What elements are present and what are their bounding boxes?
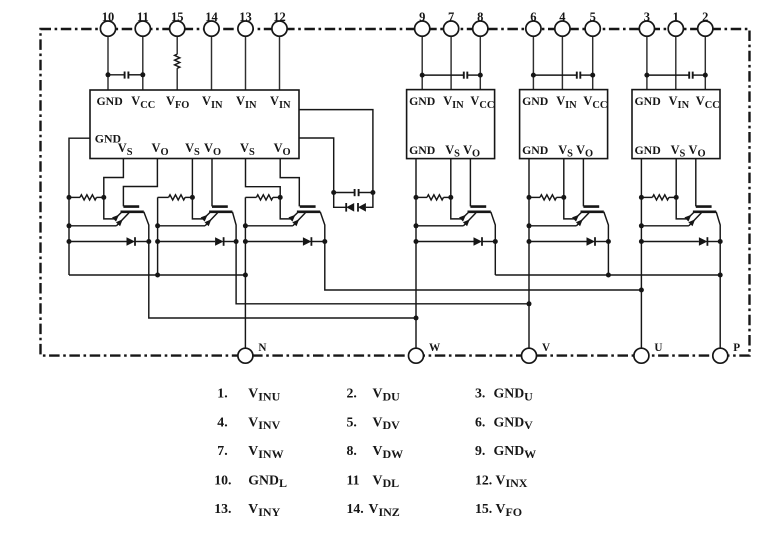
pin 14 terminal (204, 10, 219, 36)
wire V_O to gate of Q6 (695, 159, 697, 207)
wire pin14 (V_INZ) to low-side driver (211, 29, 213, 90)
rail GND/W phase (driver GND to terminal W) (415, 159, 417, 349)
terminal P (713, 342, 741, 363)
resistor R_FO (pin15 V_FO pull-up) (175, 29, 180, 90)
U1 pin label V_IN (Y) (236, 94, 257, 111)
legend row 4 (214, 472, 528, 490)
pin 4 terminal (555, 10, 570, 36)
svg-text:1.: 1. (217, 386, 227, 401)
label V_CC (583, 94, 607, 111)
svg-text:15: 15 (171, 10, 184, 24)
pin 7 terminal (444, 10, 459, 36)
svg-text:11: 11 (137, 10, 149, 24)
terminal N (238, 342, 267, 363)
label GND (top) (522, 94, 548, 108)
label GND (bottom) (522, 143, 548, 157)
wire V_O2 to gate of Q2 (211, 159, 213, 207)
free-wheel diode D3 (243, 237, 327, 246)
module outline (dash-dot package border) (41, 29, 750, 356)
label V_CC (696, 94, 720, 111)
wire collector Q3 to U phase (325, 242, 644, 293)
svg-text:2.: 2. (347, 386, 357, 401)
free-wheel diode D1 (67, 195, 152, 246)
label V_S (671, 143, 686, 160)
svg-text:GND: GND (522, 94, 548, 108)
wire collector Q5 to P rail (607, 242, 609, 276)
capacitor C_W (supply cap) (422, 72, 480, 79)
wire emitter of Q2 to rail (155, 223, 205, 228)
wire pin13 (V_INY) to low-side driver (245, 29, 247, 90)
U1 pin label V_IN (Z) (202, 94, 223, 111)
label GND (top) (409, 94, 435, 108)
wire pin 9 (GND_W) to driver (420, 29, 425, 90)
U1 pin label V_S (118, 141, 133, 158)
svg-text:GND: GND (409, 143, 435, 157)
svg-text:13: 13 (239, 10, 252, 24)
label V_S (445, 143, 460, 160)
label V_IN (556, 94, 577, 111)
svg-text:GND: GND (635, 94, 661, 108)
U1 pin label V_O (274, 141, 291, 158)
legend row 3 (217, 443, 536, 461)
capacitor C2 (snubber) (334, 189, 373, 196)
resistor R5 (gate-emitter) (529, 195, 566, 200)
wire collector Q4 to P rail (494, 242, 496, 276)
svg-text:3.: 3. (475, 386, 485, 401)
svg-text:8: 8 (477, 10, 483, 24)
svg-text:GND: GND (97, 94, 123, 108)
capacitor C_U (supply cap) (647, 72, 705, 79)
label V_O (689, 143, 706, 160)
U1 pin label V_S (240, 141, 255, 158)
legend row 2 (217, 414, 533, 432)
rail GND/V phase (driver GND to terminal V) (528, 159, 530, 349)
terminal W (409, 342, 442, 363)
svg-text:W: W (429, 342, 441, 354)
svg-text:7: 7 (448, 10, 454, 24)
label GND (top) (635, 94, 661, 108)
label GND (bottom) (635, 143, 661, 157)
pin 13 terminal (238, 10, 253, 36)
U1 pin label V_CC (131, 94, 155, 111)
high-side driver IC (W phase) (407, 90, 495, 159)
svg-text:P: P (733, 342, 740, 354)
U1 pin label GND (top) (97, 94, 123, 108)
U1 pin label V_S (185, 141, 200, 158)
wire emitter of Q1 to rail (67, 223, 117, 228)
wire V_O1 to gate of Q1 (123, 159, 157, 207)
capacitor C1 (V_DL supply cap) (108, 72, 143, 79)
wire pin12 (V_INX) to low-side driver (279, 29, 281, 90)
wire pin 8 (V_DW) to driver (478, 29, 483, 90)
wire U1 bottom GND to N rail (rail 1) (69, 138, 90, 275)
IGBT Q4 (451, 197, 496, 241)
free-wheel diode D5 (527, 195, 611, 246)
pin 3 terminal (639, 10, 654, 36)
pin 12 terminal (272, 10, 287, 36)
wire V_O to gate of Q5 (582, 159, 584, 207)
wire pin11 (V_DL) to low-side driver (140, 29, 145, 90)
pin 5 terminal (585, 10, 600, 36)
free-wheel diode D2 (155, 237, 239, 246)
resistor R6 (gate-emitter) (641, 195, 678, 200)
IGBT Q1 (104, 197, 149, 241)
svg-text:GND: GND (635, 143, 661, 157)
pin 11 terminal (135, 10, 150, 36)
rail GND/U phase (driver GND to terminal U) (640, 159, 642, 349)
svg-text:7.: 7. (217, 443, 227, 458)
svg-text:GND: GND (522, 143, 548, 157)
wire emitter of Q6 to rail (639, 223, 689, 228)
svg-text:3: 3 (644, 10, 650, 24)
diodes D7 D8 (series clamp) (334, 193, 373, 212)
svg-text:N: N (258, 342, 266, 354)
wire emitter of Q4 to rail (414, 223, 464, 228)
U1 pin label V_O (204, 141, 221, 158)
label GND (bottom) (409, 143, 435, 157)
label V_CC (470, 94, 494, 111)
pin 8 terminal (473, 10, 488, 36)
U1 pin label GND (bottom) (95, 132, 121, 146)
high-side driver IC (U phase) (632, 90, 720, 159)
svg-text:2: 2 (702, 10, 708, 24)
wire V_O to gate of Q4 (469, 159, 471, 207)
wire U1 right (bottom) to snubber node A (299, 138, 336, 195)
wire V_S to sense emitter node (450, 159, 452, 198)
wire emitter of Q5 to rail (527, 223, 577, 228)
label V_S (558, 143, 573, 160)
IGBT Q6 (676, 197, 720, 241)
terminal V (522, 342, 551, 363)
U1 pin label V_O (152, 141, 169, 158)
svg-text:15.: 15. (475, 501, 492, 516)
svg-text:9: 9 (419, 10, 425, 24)
wire V_O3 to gate of Q3 (280, 159, 299, 207)
pin 6 terminal (526, 10, 541, 36)
svg-text:V: V (542, 342, 550, 354)
IGBT Q5 (564, 197, 609, 241)
label V_O (463, 143, 480, 160)
svg-text:8.: 8. (347, 443, 357, 458)
wire pin 1 (V_INU) to driver (675, 29, 677, 90)
wire pin 4 (V_INV) to driver (561, 29, 563, 90)
svg-text:10: 10 (102, 10, 115, 24)
svg-text:4.: 4. (217, 414, 227, 429)
resistor R2 (gate-emitter) (158, 195, 195, 200)
wire V_S to sense emitter node (675, 159, 677, 198)
svg-text:6.: 6. (475, 414, 485, 429)
label V_IN (443, 94, 464, 111)
svg-text:5.: 5. (347, 414, 357, 429)
svg-text:10.: 10. (214, 472, 231, 487)
resistor R3 (gate-emitter) (245, 195, 282, 200)
svg-text:6: 6 (530, 10, 536, 24)
pin 9 terminal (415, 10, 430, 36)
svg-text:14.: 14. (347, 501, 364, 516)
svg-text:1: 1 (673, 10, 679, 24)
pin 10 terminal (100, 10, 115, 36)
high-side driver IC (V phase) (520, 90, 608, 159)
label V_IN (669, 94, 690, 111)
terminal U (634, 342, 663, 363)
resistor R4 (gate-emitter) (416, 195, 453, 200)
svg-text:U: U (654, 342, 662, 354)
legend row 1 (217, 386, 533, 404)
svg-text:5: 5 (590, 10, 596, 24)
U1 pin label V_IN (X) (270, 94, 291, 111)
svg-text:11: 11 (347, 472, 360, 487)
wire V_S2 to sense emitter node (191, 159, 193, 198)
wire U1 right (top) to snubber node B (299, 110, 375, 195)
wire pin 3 (GND_U) to driver (644, 29, 649, 90)
low-side driver IC U1 (90, 90, 299, 159)
free-wheel diode D4 (414, 195, 498, 246)
pin 15 terminal (170, 10, 185, 36)
wire collector Q2 to V phase (236, 242, 531, 307)
svg-text:14: 14 (205, 10, 218, 24)
wire collector Q1 to W phase (149, 242, 419, 321)
wire pin 2 (V_DU) to driver (703, 29, 708, 90)
wire pin10 (GND_L) to low-side driver (106, 29, 111, 90)
pin 1 terminal (668, 10, 683, 36)
IGBT Q3 (280, 197, 325, 241)
rail 2 (emitter rail of Q2) (155, 197, 160, 277)
legend row 5 (214, 501, 522, 519)
free-wheel diode D6 (639, 195, 723, 246)
wire V_S3 to sense emitter node (246, 159, 281, 198)
wire pin 6 (GND_V) to driver (531, 29, 536, 90)
label V_O (576, 143, 593, 160)
resistor R1 (gate-emitter) (69, 195, 106, 200)
svg-text:12.: 12. (475, 472, 492, 487)
node P rail wire (495, 273, 721, 278)
node N bus wire (69, 274, 245, 276)
wire collector Q6 to P rail (718, 242, 723, 356)
capacitor C_V (supply cap) (533, 72, 592, 79)
U1 pin label V_FO (166, 94, 189, 111)
svg-text:4: 4 (559, 10, 566, 24)
svg-text:9.: 9. (475, 443, 485, 458)
rail 3 (emitter rail of Q3) to N terminal (243, 197, 248, 348)
wire pin 7 (V_INW) to driver (450, 29, 452, 90)
svg-text:GND: GND (409, 94, 435, 108)
wire V_S to sense emitter node (563, 159, 565, 198)
wire emitter of Q3 to rail (243, 223, 293, 228)
wire pin 5 (V_DV) to driver (590, 29, 595, 90)
svg-text:12: 12 (273, 10, 286, 24)
pin 2 terminal (698, 10, 713, 36)
wire V_S1 to sense emitter node (104, 159, 124, 198)
IGBT Q2 (192, 197, 236, 241)
svg-text:13.: 13. (214, 501, 231, 516)
